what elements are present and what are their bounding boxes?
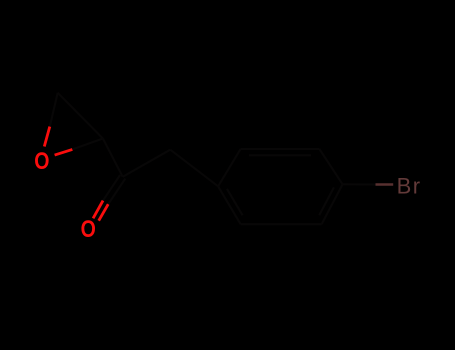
carbonyl C3=O2 double bond line 1 red half	[93, 201, 103, 219]
carbonyl C3=O2 double bond line 2 carbon half	[108, 179, 125, 205]
oxirane O1 to CH2 bond: red half (near O)	[44, 127, 50, 147]
benzene edge BL-L	[218, 186, 241, 224]
bond C4 to ring ipso L	[170, 150, 218, 187]
oxirane O1 to C2 bond: red half (near O)	[55, 149, 73, 155]
svg-text:O: O	[81, 216, 96, 243]
benzene top inner double line	[249, 154, 311, 156]
carbonyl C3=O2 double bond line 1 carbon half	[103, 175, 120, 201]
benzene edge BR-BL (bottom)	[241, 223, 322, 225]
svg-text:O: O	[34, 148, 49, 175]
bond C2 to carbonyl C3	[103, 139, 123, 177]
benzene edge TR-R	[319, 149, 342, 184]
oxirane CH2-C2 ring bond	[58, 93, 103, 139]
benzene edge R-BR	[322, 184, 343, 224]
bond ring R to Br: carbon half	[343, 183, 376, 185]
oxirane O1 to C2 bond: carbon half	[72, 139, 103, 150]
benzene edge TL-TR (top)	[241, 148, 320, 150]
bond ring R to Br: bromine half	[376, 183, 394, 186]
oxirane O1 to CH2 bond: carbon half	[50, 93, 58, 127]
svg-text:Br: Br	[397, 173, 422, 198]
benzene BL-L inner double line	[227, 189, 243, 216]
benzene R-BR inner double line	[319, 187, 334, 215]
carbonyl C3=O2 double bond line 2 red half	[99, 204, 109, 221]
benzene edge L-TL	[218, 149, 241, 186]
bond C3 to benzylic C4	[123, 150, 171, 177]
